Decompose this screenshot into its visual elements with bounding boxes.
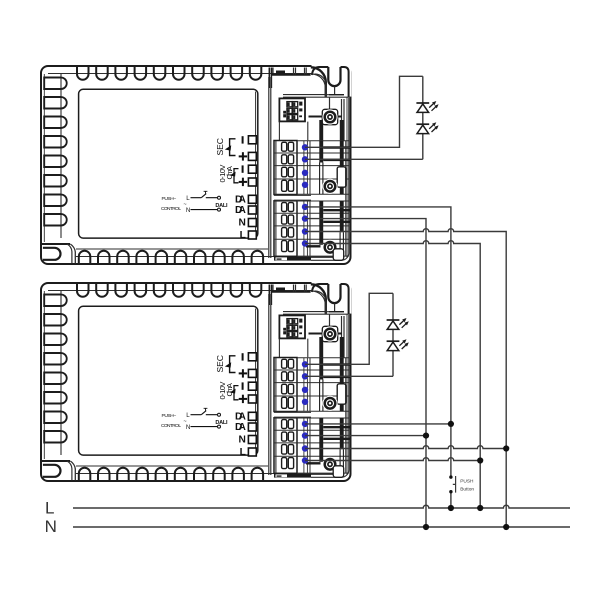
svg-text:Button: Button <box>460 487 474 493</box>
svg-text:N: N <box>45 517 57 536</box>
svg-text:PUSH: PUSH <box>460 479 474 485</box>
svg-text:L: L <box>45 499 54 518</box>
